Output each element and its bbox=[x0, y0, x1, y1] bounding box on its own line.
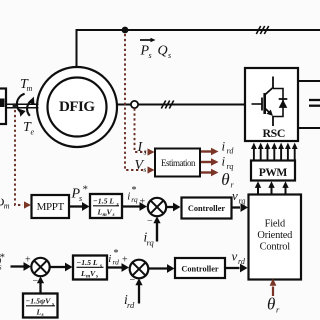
svg-text:Controller: Controller bbox=[181, 265, 218, 274]
svg-text:e: e bbox=[31, 128, 35, 137]
gain -1.5Ls/LmVs (d axis) bbox=[73, 256, 107, 280]
svg-text:v: v bbox=[232, 249, 238, 264]
svg-text:s: s bbox=[144, 166, 147, 174]
block MPPT bbox=[32, 195, 70, 218]
converter RSC bbox=[245, 68, 298, 141]
block Controller (q axis) bbox=[182, 198, 232, 219]
svg-text:Estimation: Estimation bbox=[161, 158, 196, 168]
label vrd bbox=[232, 249, 246, 267]
svg-text:−: − bbox=[130, 275, 136, 286]
label Vs bbox=[135, 158, 147, 174]
svg-text:DFIG: DFIG bbox=[59, 99, 95, 115]
estimation output arrows bbox=[201, 148, 219, 177]
gain -1.5Ls/LmVs (q axis) bbox=[90, 194, 122, 218]
svg-text:rq: rq bbox=[131, 195, 138, 204]
DC link capacitor (= sign) bbox=[309, 100, 320, 106]
current sensor node (open circle) bbox=[131, 101, 138, 108]
svg-text:*: * bbox=[114, 248, 119, 259]
arrow controller2 to FOC bbox=[226, 264, 248, 273]
svg-text:rd: rd bbox=[227, 147, 235, 156]
irq feedback arrow into sum1 bbox=[153, 216, 160, 241]
svg-text:i: i bbox=[108, 253, 111, 265]
summing junction sum1 bbox=[148, 198, 166, 216]
svg-text:s: s bbox=[0, 263, 2, 272]
IGBT symbol bbox=[252, 77, 274, 127]
summing junction sum3 bbox=[130, 260, 149, 279]
svg-text:+: + bbox=[122, 255, 128, 266]
svg-text:−: − bbox=[147, 216, 153, 227]
label Tm bbox=[20, 77, 33, 93]
svg-text:s: s bbox=[41, 312, 44, 318]
label irq (feedback) bbox=[144, 230, 155, 248]
svg-text:s: s bbox=[99, 263, 102, 269]
svg-text:I: I bbox=[137, 140, 144, 155]
svg-text:s: s bbox=[116, 202, 119, 208]
wire : stator to grid bbox=[77, 30, 320, 66]
freewheel diode bbox=[273, 89, 287, 117]
svg-text:m: m bbox=[27, 84, 33, 93]
svg-text:−: − bbox=[33, 276, 39, 287]
wire : DC link bottom bbox=[298, 127, 320, 129]
svg-text:s: s bbox=[168, 51, 171, 60]
svg-text:i: i bbox=[222, 154, 226, 169]
svg-text:v: v bbox=[232, 188, 238, 203]
svg-text:i: i bbox=[127, 191, 130, 203]
svg-text:+: + bbox=[25, 255, 31, 266]
dashed sense wire omega_m : shaft speed to MPPT bbox=[15, 110, 31, 209]
label omega_m (clipped) bbox=[0, 194, 10, 211]
svg-text:rd: rd bbox=[238, 257, 246, 266]
rotation arrow (Tm, head up-right) bbox=[27, 97, 34, 116]
summing junction sum2 bbox=[31, 258, 49, 276]
svg-text:*: * bbox=[132, 185, 137, 196]
svg-text:s: s bbox=[144, 148, 147, 157]
svg-text:i: i bbox=[222, 139, 226, 154]
gate signal arrows PWM to RSC bbox=[251, 143, 298, 160]
svg-text:+: + bbox=[140, 197, 146, 208]
wire : DC link top bbox=[298, 80, 320, 82]
arrow controller1 to FOC bbox=[232, 203, 248, 212]
label irq bbox=[222, 154, 234, 172]
arrow sum1 to controller1 bbox=[166, 203, 181, 212]
label ird* bbox=[108, 248, 119, 267]
dashed sense wire Is : from rotor sensor to Estimation bbox=[135, 109, 155, 156]
svg-text:s: s bbox=[149, 51, 152, 60]
label Ps Qs with arrow bbox=[140, 38, 172, 60]
feedback arrow gain3 to sum2 bbox=[37, 276, 44, 293]
svg-text:s: s bbox=[95, 274, 98, 280]
theta_r input arrow to FOC bbox=[270, 279, 277, 297]
label irq* bbox=[127, 185, 138, 204]
arrow gain to sum1 bbox=[123, 202, 148, 211]
three-phase marks on rotor wire bbox=[161, 101, 173, 109]
svg-text:Q: Q bbox=[158, 44, 168, 59]
svg-text:−1.5 L: −1.5 L bbox=[77, 258, 98, 267]
wind turbine box (clipped at left edge) bbox=[0, 89, 6, 125]
label Ps* bbox=[71, 184, 89, 204]
svg-text:−1.5 L: −1.5 L bbox=[93, 197, 114, 206]
label Qs* (clipped) bbox=[0, 252, 5, 272]
svg-text:*: * bbox=[0, 252, 5, 264]
arrow MPPT to gain bbox=[70, 202, 90, 211]
svg-text:r: r bbox=[276, 305, 280, 315]
svg-text:Oriented: Oriented bbox=[257, 230, 293, 241]
svg-text:Control: Control bbox=[260, 242, 291, 253]
label Is bbox=[137, 140, 147, 157]
svg-text:s: s bbox=[51, 302, 54, 308]
node : stator junction bbox=[122, 27, 129, 34]
block Estimation bbox=[155, 149, 200, 177]
label theta_r bbox=[221, 170, 234, 190]
label ird (feedback) bbox=[124, 292, 135, 310]
ird feedback arrow into sum3 bbox=[135, 278, 142, 303]
rotation arrow (Te, head down-left) bbox=[17, 94, 26, 117]
svg-text:s: s bbox=[112, 212, 115, 218]
block Field Oriented Control bbox=[249, 195, 302, 280]
arrows FOC to PWM bbox=[255, 181, 289, 193]
dashed sense wire Vs : from stator junction to Estimation bbox=[125, 34, 155, 174]
arrow Qs* to sum2 bbox=[11, 262, 32, 271]
three-phase marks on grid wire bbox=[256, 26, 268, 34]
svg-text:*: * bbox=[83, 184, 89, 196]
generator DFIG bbox=[37, 67, 117, 147]
svg-text:−1.5ψV: −1.5ψV bbox=[26, 297, 52, 306]
svg-text:MPPT: MPPT bbox=[37, 201, 65, 213]
arrow gain2 to sum3 bbox=[108, 263, 130, 272]
label ird bbox=[222, 139, 235, 156]
svg-text:θ: θ bbox=[221, 170, 229, 189]
svg-text:m: m bbox=[4, 202, 10, 211]
svg-text:PWM: PWM bbox=[259, 166, 288, 179]
svg-text:rq: rq bbox=[147, 238, 155, 248]
svg-text:rd: rd bbox=[127, 300, 135, 310]
block PWM bbox=[251, 161, 295, 181]
svg-text:Controller: Controller bbox=[188, 204, 225, 213]
gain -1.5psiVs/Ls bbox=[23, 294, 58, 319]
wire : rotor to RSC bbox=[117, 104, 245, 106]
label vrq bbox=[232, 188, 245, 206]
label Te bbox=[23, 120, 35, 137]
shaft (double line) bbox=[6, 103, 39, 108]
svg-text:Field: Field bbox=[265, 219, 286, 230]
arrow sum2 to gain2 bbox=[50, 263, 73, 272]
svg-text:θ: θ bbox=[267, 295, 275, 314]
arrow sum3 to controller2 bbox=[149, 264, 175, 273]
svg-text:RSC: RSC bbox=[262, 126, 285, 140]
block Controller (d axis) bbox=[175, 258, 225, 278]
label theta_r (bottom) bbox=[267, 295, 280, 315]
svg-text:rq: rq bbox=[239, 197, 246, 206]
